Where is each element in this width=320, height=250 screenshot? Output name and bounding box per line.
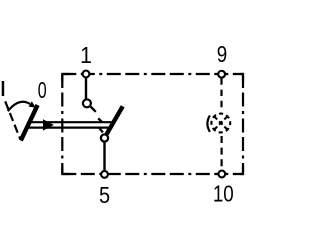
enclosure left border xyxy=(61,74,63,174)
terminal 1 circle xyxy=(83,71,90,78)
svg-text:10: 10 xyxy=(213,181,234,208)
switch blade (open position) xyxy=(107,106,123,134)
terminal 10 circle xyxy=(218,171,225,178)
lever solid (position 0) xyxy=(21,105,38,141)
lamp X diagonal NE-SW xyxy=(214,116,227,129)
terminal 5 circle xyxy=(101,171,108,178)
lamp dashed circle xyxy=(211,114,230,133)
label 1 xyxy=(80,42,92,68)
rod arrowhead xyxy=(43,119,54,130)
switch blade closed position (dashed) xyxy=(90,106,103,132)
lamp reflector arc xyxy=(207,115,210,131)
label I xyxy=(2,81,4,96)
actuator rod (double line) xyxy=(28,121,113,123)
svg-text:0: 0 xyxy=(38,78,47,104)
motion arc arrow xyxy=(8,102,30,111)
enclosure right border xyxy=(242,74,244,174)
svg-text:5: 5 xyxy=(99,181,110,208)
contact circle upper xyxy=(83,99,91,107)
svg-text:9: 9 xyxy=(217,41,227,68)
label 9 xyxy=(217,41,227,68)
enclosure top border xyxy=(62,73,243,75)
lever dashed (position I) xyxy=(5,101,20,139)
wire terminal1 to contact xyxy=(85,74,87,104)
enclosure bottom border xyxy=(62,173,243,175)
terminal 9 circle xyxy=(218,71,225,78)
lamp X diagonal NW-SE xyxy=(214,116,227,129)
svg-text:1: 1 xyxy=(80,42,92,68)
wire contact to terminal5 xyxy=(103,138,105,174)
dashed wire lamp to terminal10 xyxy=(221,136,223,170)
dashed wire terminal9 to lamp xyxy=(220,78,222,109)
label 0 xyxy=(38,78,47,104)
enclosure corner elbows xyxy=(62,74,243,174)
label 5 xyxy=(99,181,110,208)
label 10 xyxy=(213,181,234,208)
contact circle lower (pivot) xyxy=(101,134,108,141)
